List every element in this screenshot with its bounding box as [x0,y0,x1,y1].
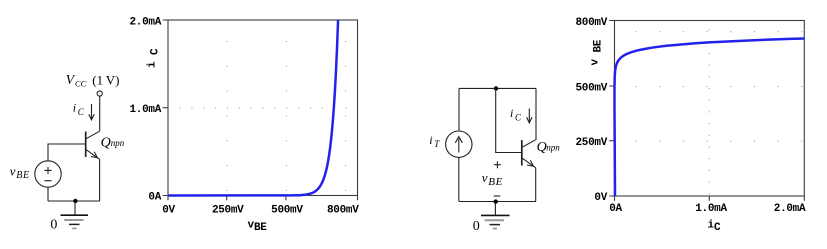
transistor Q2 npn [522,140,536,168]
wire emitter to bottom rail [99,159,101,201]
wire collector branch [535,88,537,139]
svg-text:i: i [429,133,432,147]
Q2 label Qnpn [537,140,561,155]
transistor Q1 npn [86,131,100,159]
iC arrow right [527,109,532,123]
x axis title vBE left [248,220,268,235]
wire source top to base [48,144,86,161]
curve vBE(iC) right [615,39,805,197]
voltage source VBE label [10,164,30,181]
y axis title iC left [147,48,162,68]
y ticks left [163,20,168,196]
svg-text:C: C [150,48,162,55]
plus sign vBE [494,161,501,168]
svg-text:v: v [10,164,16,179]
svg-text:v: v [589,59,601,66]
x axis title iC right [708,220,722,235]
y axis title vBE right [589,39,604,65]
wire source bottom to rail [458,158,460,202]
svg-text:0A: 0A [609,203,622,215]
svg-text:2.0mA: 2.0mA [774,203,806,215]
svg-text:Q: Q [101,136,111,151]
minus sign vBE [494,195,501,197]
wire source bottom lead [47,187,49,201]
plot frame left [168,20,358,196]
svg-text:v: v [482,170,488,185]
VCC terminal node [97,91,102,96]
iC label left [73,101,85,118]
x ticks left [168,196,358,201]
svg-text:npn: npn [111,138,125,148]
Q1 label Qnpn [101,136,125,151]
wire bottom rail left [48,200,100,202]
node junction bottom [494,199,498,203]
svg-text:Q: Q [537,140,547,155]
svg-text:i: i [73,101,76,115]
grid dots right [636,30,803,195]
grid dots left [180,41,347,191]
svg-text:250mV: 250mV [575,137,607,149]
iT label [429,133,440,149]
svg-text:1.0mA: 1.0mA [695,203,727,215]
svg-text:500mV: 500mV [575,83,607,95]
svg-text:C: C [515,113,522,123]
svg-text:800mV: 800mV [327,204,359,216]
ground 0 left [50,202,88,232]
svg-text:C: C [714,222,721,234]
svg-text:i: i [510,106,513,120]
iC arrow left [89,104,94,120]
svg-text:500mV: 500mV [271,204,303,216]
curve iC(vBE) left [168,20,338,196]
svg-text:2.0mA: 2.0mA [129,16,161,28]
wire top junction down to base corner [496,88,522,152]
svg-text:BE: BE [488,176,503,188]
svg-text:BE: BE [16,170,29,181]
y ticks right [609,21,614,197]
wire emitter to bottom rail right [535,168,537,202]
svg-text:BE: BE [254,222,267,234]
vBE label right circuit [482,170,503,188]
VCC (1 V) label [66,72,120,89]
x ticks right [615,196,805,201]
node junction top [494,86,498,90]
svg-text:0: 0 [50,217,57,232]
plot frame right [615,21,805,197]
svg-text:T: T [434,139,440,149]
wire top rail to source [458,88,460,131]
svg-text:CC: CC [75,79,87,89]
svg-text:i: i [147,61,159,68]
svg-text:BE: BE [592,39,604,52]
wire bottom rail right circuit [459,201,536,203]
node junction bottom left [73,199,77,203]
svg-text:800mV: 800mV [575,17,607,29]
voltage source VBE [35,161,61,187]
iC label right [510,106,522,123]
svg-text:0V: 0V [162,204,175,216]
wire top rail right circuit [459,87,536,89]
current source iT [446,131,472,157]
svg-text:npn: npn [546,143,560,153]
svg-text:250mV: 250mV [212,204,244,216]
wire VCC to collector [99,96,101,131]
svg-text:(1 V): (1 V) [92,73,119,88]
svg-text:0: 0 [473,219,480,234]
svg-text:C: C [78,107,85,117]
svg-text:0V: 0V [594,192,607,204]
ground 0 right [473,203,510,234]
svg-text:1.0mA: 1.0mA [129,104,161,116]
svg-text:0A: 0A [148,191,161,203]
